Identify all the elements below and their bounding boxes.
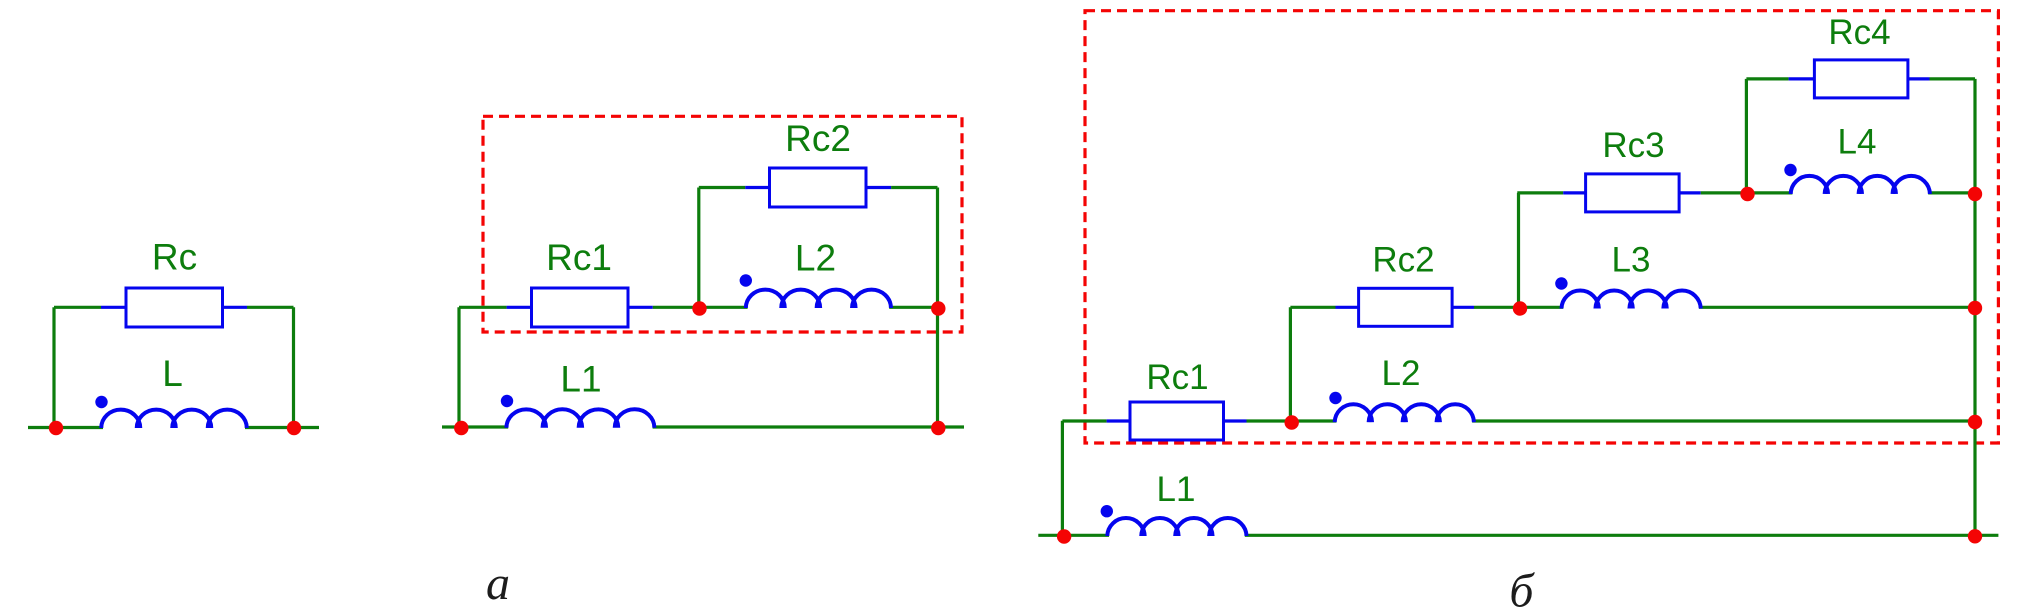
node: Rc3/L4 junction	[1740, 187, 1754, 201]
svg-text:L2: L2	[795, 238, 836, 279]
wire: right vertical branch	[1973, 79, 1976, 536]
node: right rail row2	[1968, 187, 1982, 201]
wire: row4 rail to L2	[1247, 419, 1337, 422]
wire: bottom rail left segment	[1038, 534, 1109, 537]
inductor L	[101, 410, 247, 428]
wire: row2 rail from L4 to right	[1928, 191, 1975, 194]
node: right rail bottom	[1968, 529, 1982, 543]
resistor Rc	[126, 288, 223, 327]
node: right junction	[931, 301, 945, 315]
wire: row1 rail right segment	[1930, 77, 1976, 80]
node: right terminal	[287, 421, 301, 435]
wire: Rc2 branch left vertical	[697, 188, 700, 308]
dashed selection box	[483, 116, 962, 332]
inductor L1	[506, 409, 654, 427]
wire: row3 rail from L3 to right	[1699, 306, 1975, 309]
node: right rail row4	[1968, 415, 1982, 429]
svg-text:а: а	[486, 557, 510, 610]
wire: row2 rail left segment	[1517, 191, 1563, 194]
node: Rc2/L3 junction	[1513, 301, 1527, 315]
svg-text:Rc1: Rc1	[546, 237, 612, 278]
svg-text:Rc2: Rc2	[1372, 241, 1434, 280]
node: Rc1/L2/Rc2 junction	[692, 301, 706, 315]
inductor L2	[746, 290, 891, 308]
svg-text:L: L	[162, 353, 183, 394]
resistor Rc2	[1359, 288, 1453, 326]
wire: bottom rail left segment	[442, 425, 508, 428]
resistor Rc2 leads	[1336, 306, 1475, 309]
polarity dot of L3	[1555, 277, 1567, 289]
node: right rail row3	[1968, 301, 1982, 315]
node: left terminal	[49, 421, 63, 435]
svg-text:Rc4: Rc4	[1828, 13, 1890, 52]
resistor Rc4 leads	[1789, 77, 1930, 80]
svg-text:L2: L2	[1382, 354, 1421, 393]
wire: top rail left segment	[54, 306, 101, 309]
resistor Rc1	[532, 288, 629, 327]
node: Rc1/L2 junction	[1285, 415, 1299, 429]
wire: bottom rail left segment	[28, 426, 103, 429]
resistor Rc3	[1586, 174, 1680, 212]
polarity dot of L1	[1101, 505, 1113, 517]
wire: bottom rail right segment	[653, 425, 964, 428]
resistor Rc1 leads	[507, 306, 653, 309]
wire: main rail left segment	[459, 306, 507, 309]
svg-text:L3: L3	[1612, 241, 1651, 280]
dashed selection box	[1085, 11, 1998, 443]
svg-text:L1: L1	[1157, 470, 1196, 509]
polarity dot of L	[95, 396, 107, 408]
wire: row4 rail left segment	[1062, 419, 1106, 422]
resistor Rc2 leads	[745, 186, 891, 189]
wire: row4 rail from L2 to right	[1472, 419, 1975, 422]
svg-text:Rc2: Rc2	[785, 118, 851, 159]
wire: left vertical branch	[52, 307, 55, 427]
wire: Rc2 branch top left segment	[699, 186, 746, 189]
wire: left vertical branch	[457, 307, 460, 427]
inductor L1	[1107, 518, 1246, 536]
wire: row1 rail left segment	[1746, 77, 1788, 80]
wire: left vertical branch	[1061, 421, 1064, 537]
resistor Rc leads	[101, 306, 247, 309]
wire: right vertical branch	[936, 188, 939, 428]
wire: Rc2 branch top right segment	[891, 186, 937, 189]
node: bottom left terminal	[1057, 529, 1071, 543]
svg-text:L1: L1	[560, 359, 601, 400]
svg-text:Rc1: Rc1	[1146, 358, 1208, 397]
svg-text:Rc3: Rc3	[1602, 126, 1664, 165]
svg-text:б: б	[1509, 565, 1535, 615]
wire: vertical from node up to row2	[1517, 193, 1520, 307]
wire: row3 rail from Rc2 to L3	[1474, 306, 1563, 309]
svg-text:L4: L4	[1838, 123, 1877, 162]
wire: rail from L2 to right branch	[889, 306, 937, 309]
inductor L2	[1335, 404, 1474, 422]
wire: row2 rail from Rc3 to L4	[1701, 191, 1793, 194]
wire: rail from Rc1 to L2	[653, 306, 748, 309]
wire: vertical from node up to row1	[1745, 79, 1748, 194]
wire: vertical from node up to row3	[1289, 307, 1292, 421]
resistor Rc2	[770, 168, 867, 207]
node: bottom left terminal	[454, 421, 468, 435]
wire: row3 rail left segment	[1290, 306, 1335, 309]
svg-text:Rc: Rc	[152, 237, 197, 278]
wire: top rail right segment	[247, 306, 294, 309]
wire: bottom rail right segment	[1245, 534, 1999, 537]
polarity dot of L2	[740, 274, 752, 286]
resistor Rc4	[1814, 60, 1908, 98]
node: bottom right terminal	[931, 421, 945, 435]
polarity dot of L1	[501, 395, 513, 407]
inductor L3	[1562, 291, 1701, 309]
resistor Rc1 leads	[1107, 419, 1247, 422]
resistor Rc1	[1130, 402, 1224, 440]
inductor L4	[1791, 176, 1930, 194]
polarity dot of L4	[1784, 164, 1796, 176]
wire: right vertical branch	[292, 307, 295, 427]
resistor Rc3 leads	[1563, 191, 1701, 194]
wire: bottom rail right segment	[245, 426, 319, 429]
polarity dot of L2	[1329, 392, 1341, 404]
